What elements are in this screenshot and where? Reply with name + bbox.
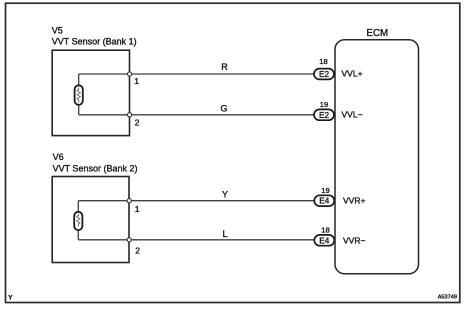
svg-text:V6: V6 xyxy=(53,152,64,162)
svg-text:VVT Sensor (Bank 1): VVT Sensor (Bank 1) xyxy=(52,36,137,46)
svg-text:E2: E2 xyxy=(319,111,329,120)
svg-text:E2: E2 xyxy=(319,70,329,79)
svg-text:19: 19 xyxy=(320,100,328,109)
svg-text:R: R xyxy=(221,62,228,72)
svg-text:18: 18 xyxy=(319,57,327,66)
svg-text:Y: Y xyxy=(222,190,228,200)
svg-text:1: 1 xyxy=(134,76,139,86)
svg-text:V5: V5 xyxy=(52,25,63,35)
svg-text:VVR−: VVR− xyxy=(343,235,365,245)
svg-text:L: L xyxy=(222,229,227,239)
svg-text:Y: Y xyxy=(8,294,13,301)
svg-text:2: 2 xyxy=(135,118,140,128)
svg-text:G: G xyxy=(220,103,227,113)
svg-text:19: 19 xyxy=(321,186,329,195)
svg-text:VVL+: VVL+ xyxy=(342,69,363,79)
svg-text:VVT Sensor (Bank 2): VVT Sensor (Bank 2) xyxy=(53,163,138,173)
svg-text:A53749: A53749 xyxy=(438,295,457,301)
svg-text:18: 18 xyxy=(321,226,329,235)
svg-text:E4: E4 xyxy=(319,236,329,245)
svg-text:ECM: ECM xyxy=(366,28,388,39)
svg-text:1: 1 xyxy=(135,204,140,214)
svg-text:VVR+: VVR+ xyxy=(343,196,365,206)
svg-text:VVL−: VVL− xyxy=(342,110,363,120)
svg-text:E4: E4 xyxy=(319,197,329,206)
svg-text:2: 2 xyxy=(135,245,140,255)
